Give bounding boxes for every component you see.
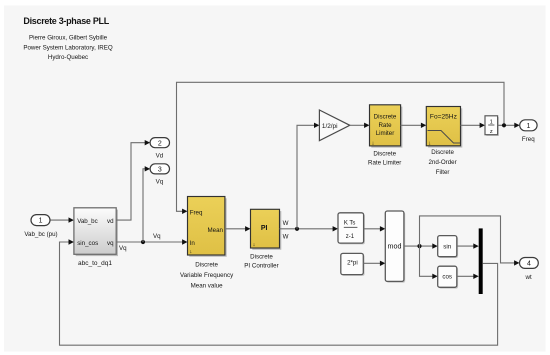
wire Mean to PI	[225, 226, 251, 231]
block abc_to_dq1	[74, 208, 118, 267]
output port 3 Vq	[150, 164, 169, 186]
wire mux output feedback to sin_cos	[60, 239, 498, 345]
wire unit delay to port 1 with junction	[498, 123, 520, 128]
wire vd to port 2	[116, 140, 150, 220]
svg-text:Vab_bc (pu): Vab_bc (pu)	[24, 231, 57, 238]
svg-text:z-1: z-1	[346, 234, 355, 240]
svg-text:Discrete: Discrete	[431, 149, 454, 156]
svg-text:vq: vq	[107, 240, 114, 247]
svg-text:Vq: Vq	[153, 233, 161, 240]
wire freq feedback from unit delay junction to Freq input	[177, 82, 505, 214]
wire mod to sin with junction	[404, 243, 438, 248]
svg-text:Discrete 3-phase PLL: Discrete 3-phase PLL	[23, 16, 109, 26]
svg-text:1: 1	[39, 218, 43, 225]
wire gain to rate limiter	[350, 123, 370, 128]
svg-text:vd: vd	[107, 218, 114, 225]
svg-text:Mean: Mean	[208, 227, 224, 234]
svg-text:Limiter: Limiter	[376, 130, 395, 137]
wire port1 to Vab_bc input	[50, 217, 74, 222]
wire rate limiter to filter	[401, 123, 427, 128]
svg-text:Discrete: Discrete	[373, 151, 396, 158]
svg-text:K Ts: K Ts	[344, 221, 356, 227]
svg-text:↓: ↓	[253, 242, 256, 248]
gain triangle 1/2/pi	[319, 110, 349, 141]
block mod	[385, 211, 405, 283]
wire wt from junction over to port 4	[420, 216, 520, 266]
svg-text:Vq: Vq	[156, 178, 164, 185]
block cos	[438, 266, 458, 288]
svg-text:PI: PI	[261, 225, 268, 232]
wire K Ts to mod	[364, 226, 386, 231]
svg-text:4: 4	[527, 261, 531, 268]
wire junction to port 3	[143, 166, 150, 242]
svg-text:In: In	[190, 240, 196, 247]
svg-text:↓: ↓	[190, 249, 193, 255]
output port 1 Freq	[520, 120, 537, 143]
title annotation	[23, 16, 112, 61]
wire junction up to gain 1/2/pi	[297, 123, 319, 229]
svg-text:Vq: Vq	[119, 245, 127, 252]
svg-text:Hydro-Quebec: Hydro-Quebec	[48, 54, 88, 61]
svg-text:Fo=25Hz: Fo=25Hz	[430, 114, 457, 121]
block sin	[438, 236, 458, 258]
block Discrete Rate Limiter	[368, 105, 402, 167]
wire W from PI to K Ts block with junction	[280, 220, 339, 241]
svg-text:Freq: Freq	[522, 136, 535, 143]
svg-text:Mean value: Mean value	[191, 282, 224, 289]
svg-text:2*pi: 2*pi	[347, 260, 358, 267]
svg-text:1: 1	[526, 123, 530, 130]
wire filter to unit delay	[461, 123, 486, 128]
svg-text:Discrete: Discrete	[250, 253, 273, 260]
mux bar	[479, 228, 483, 294]
unit delay 1/z	[485, 116, 499, 136]
svg-text:sin_cos: sin_cos	[77, 240, 98, 247]
svg-text:Variable Frequency: Variable Frequency	[180, 272, 234, 279]
svg-text:W: W	[283, 234, 289, 241]
wire cos to mux	[457, 274, 479, 279]
svg-text:sin: sin	[443, 243, 451, 250]
wire vq to junction and Mean In	[116, 233, 187, 252]
svg-text:abc_to_dq1: abc_to_dq1	[78, 260, 112, 267]
svg-text:↓: ↓	[372, 141, 375, 147]
svg-text:Rate Limiter: Rate Limiter	[368, 160, 401, 167]
block Discrete 2nd-Order Filter Fo=25Hz	[426, 107, 462, 176]
svg-text:Vab_bc: Vab_bc	[77, 218, 98, 225]
svg-text:Freq: Freq	[190, 209, 203, 216]
svg-text:Filter: Filter	[436, 169, 450, 176]
input port 1 Vab_bc	[24, 215, 57, 238]
svg-text:mod: mod	[388, 241, 402, 250]
svg-text:2: 2	[158, 140, 162, 147]
svg-text:1/2/pi: 1/2/pi	[322, 123, 338, 130]
wire 2*pi to mod	[363, 261, 385, 266]
svg-text:PI Controller: PI Controller	[244, 263, 278, 270]
svg-text:Discrete: Discrete	[195, 262, 218, 269]
svg-text:Rate: Rate	[378, 122, 392, 129]
block Discrete PI Controller	[244, 209, 281, 269]
block Discrete Variable Frequency Mean value	[180, 197, 234, 290]
output port 4 wt	[520, 258, 539, 281]
svg-text:3: 3	[158, 167, 162, 174]
svg-text:Discrete: Discrete	[374, 113, 397, 120]
wire sin to mux	[457, 243, 479, 248]
svg-text:2nd-Order: 2nd-Order	[428, 159, 456, 166]
wire junction down to cos	[420, 246, 438, 279]
block discrete integrator K Ts / z-1	[338, 213, 365, 245]
svg-text:Pierre Giroux, Gilbert Sybille: Pierre Giroux, Gilbert Sybille	[29, 35, 108, 42]
svg-text:↓: ↓	[428, 141, 431, 147]
output port 2 Vd	[150, 138, 169, 160]
constant 2*pi	[341, 253, 365, 276]
svg-text:W: W	[283, 220, 289, 227]
svg-text:z: z	[490, 129, 493, 135]
svg-text:Vd: Vd	[156, 153, 164, 160]
svg-text:wt: wt	[525, 274, 532, 281]
svg-text:Power System Laboratory, IREQ: Power System Laboratory, IREQ	[23, 45, 112, 52]
svg-text:cos: cos	[442, 274, 452, 281]
